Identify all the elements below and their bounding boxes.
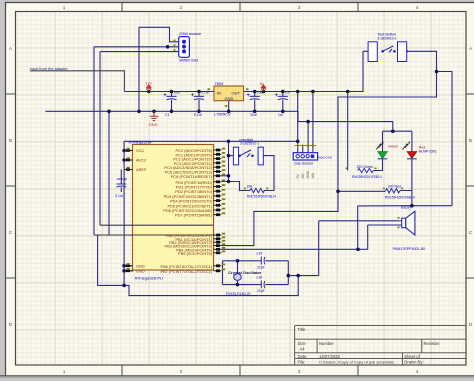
svg-text:7805: 7805 [215, 81, 225, 86]
svg-text:3: 3 [298, 5, 301, 10]
svg-text:PB7 (PCINT7/XTAL2/TOSC2): PB7 (PCINT7/XTAL2/TOSC2) [160, 269, 212, 274]
svg-text:Green: Green [388, 145, 398, 149]
svg-text:PB5 (SCK/PCINT5): PB5 (SCK/PCINT5) [178, 251, 213, 256]
svg-text:5v: 5v [260, 81, 264, 86]
svg-text:Input from the adapter: Input from the adapter [30, 66, 69, 71]
svg-text:0.1uf: 0.1uf [194, 113, 202, 117]
svg-text:Number: Number [319, 341, 334, 346]
svg-text:B: B [469, 138, 472, 143]
svg-text:AREF: AREF [136, 167, 147, 172]
svg-text:A/A: A/A [311, 172, 315, 178]
svg-text:1: 1 [63, 5, 66, 10]
svg-text:c19: c19 [257, 252, 263, 256]
svg-text:GND: GND [306, 170, 310, 178]
svg-text:c18: c18 [257, 275, 263, 279]
svg-text:D: D [9, 322, 12, 327]
svg-text:setcap: setcap [117, 177, 127, 181]
svg-text:22pF: 22pF [257, 265, 265, 269]
svg-text:10uf: 10uf [257, 91, 264, 95]
svg-text:A4: A4 [300, 347, 306, 352]
svg-text:Gas Sensor: Gas Sensor [294, 162, 314, 166]
svg-text:Size: Size [298, 341, 307, 346]
svg-text:OUT: OUT [232, 91, 241, 96]
svg-text:22pF: 22pF [257, 289, 265, 293]
svg-text:4: 4 [416, 5, 419, 10]
svg-text:C: C [9, 230, 12, 235]
svg-text:FOXSLF/160-20: FOXSLF/160-20 [226, 292, 251, 296]
svg-text:RNC55H2201FSB14: RNC55H2201FSB14 [385, 195, 415, 199]
svg-text:220 Red: 220 Red [388, 184, 401, 188]
svg-text:Date:: Date: [298, 354, 308, 359]
svg-text:220 Green: 220 Green [357, 165, 374, 169]
svg-text:0.1uf: 0.1uf [115, 194, 123, 198]
svg-text:10uf: 10uf [174, 91, 181, 95]
svg-text:4: 4 [416, 369, 419, 374]
svg-text:GSM module: GSM module [179, 32, 201, 36]
svg-text:Title: Title [298, 327, 306, 332]
svg-text:Revision: Revision [424, 341, 441, 346]
svg-text:PC6 (PCINT14/RESET): PC6 (PCINT14/RESET) [171, 174, 213, 179]
svg-text:MQ2-GAS: MQ2-GAS [318, 156, 332, 160]
svg-text:SIM900 GSM: SIM900 GSM [179, 59, 198, 63]
svg-text:VCC: VCC [136, 148, 144, 153]
svg-text:RNC55J5002FSB14: RNC55J5002FSB14 [247, 195, 276, 199]
svg-text:5V: 5V [296, 174, 300, 179]
svg-text:3-1825910-1: 3-1825910-1 [377, 37, 396, 41]
svg-text:Buzzer: Buzzer [401, 205, 412, 209]
svg-text:1: 1 [63, 369, 66, 374]
svg-text:14/07/2022: 14/07/2022 [319, 354, 341, 359]
svg-text:HLMP-3301: HLMP-3301 [419, 149, 437, 153]
svg-text:0.1uf: 0.1uf [201, 91, 209, 95]
svg-text:IN: IN [217, 91, 221, 96]
svg-text:C1: C1 [165, 113, 169, 117]
svg-text:Drawn By:: Drawn By: [404, 360, 423, 365]
svg-text:PD7 (PCINT23/AIN1): PD7 (PCINT23/AIN1) [175, 213, 213, 218]
svg-text:GND: GND [136, 268, 145, 273]
svg-text:PKM17EPP4001-B0: PKM17EPP4001-B0 [393, 247, 426, 251]
svg-text:3: 3 [298, 369, 301, 374]
svg-text:D: D [469, 322, 472, 327]
svg-text:ATMega328P: ATMega328P [129, 140, 153, 145]
svg-text:GD: GD [301, 173, 305, 179]
svg-text:2: 2 [180, 5, 183, 10]
svg-text:Sheet of: Sheet of [404, 354, 420, 359]
svg-text:GND: GND [149, 122, 158, 127]
svg-text:File:: File: [298, 360, 306, 365]
svg-text:12v: 12v [145, 80, 151, 85]
svg-text:10uf: 10uf [250, 113, 257, 117]
svg-text:L7805CV: L7805CV [214, 112, 231, 117]
svg-text:1uf: 1uf [285, 91, 290, 95]
svg-text:AVCC: AVCC [136, 158, 147, 163]
svg-text:Crystal Oscillator: Crystal Oscillator [228, 270, 262, 275]
svg-text:A: A [9, 46, 12, 51]
svg-text:2: 2 [180, 369, 183, 374]
svg-text:1uf: 1uf [278, 113, 283, 117]
svg-text:10K: 10K [246, 185, 253, 189]
svg-text:ATmega328-PU: ATmega328-PU [135, 276, 163, 281]
svg-text:3-1825910-1: 3-1825910-1 [240, 142, 259, 146]
svg-text:A: A [469, 46, 472, 51]
svg-text:C: C [469, 230, 472, 235]
svg-text:B: B [9, 138, 12, 143]
svg-text:C:\Users\..\Copy of Copy of pc: C:\Users\..\Copy of Copy of pcb schemati… [319, 360, 394, 365]
svg-text:RNC55H2201FSB14: RNC55H2201FSB14 [352, 175, 382, 179]
svg-text:GND: GND [225, 96, 234, 101]
